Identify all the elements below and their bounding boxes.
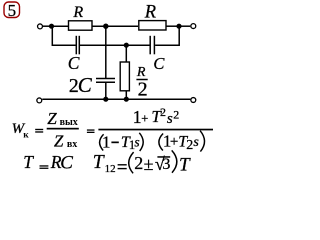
wire: node B down to capacitor 2C (crosses C branch without junction) <box>105 26 107 78</box>
wire: node D to C2 <box>126 44 149 46</box>
formula: radical overbar <box>157 156 170 158</box>
wire: R2 to node C <box>166 25 179 27</box>
svg-text:2: 2 <box>173 108 179 122</box>
svg-text:вых: вых <box>60 117 78 128</box>
bottom terminal (left) <box>37 98 42 103</box>
svg-text:1: 1 <box>102 132 111 151</box>
junction node A <box>49 24 54 29</box>
formula: second equals sign <box>87 129 95 133</box>
svg-text:±: ± <box>144 154 154 174</box>
svg-text:+: + <box>141 111 148 125</box>
formula: first equals sign <box>35 129 43 133</box>
resistor R/2 <box>120 62 129 91</box>
input terminal (top left) <box>38 24 43 29</box>
svg-text:2: 2 <box>134 153 143 173</box>
junction node D <box>124 43 129 48</box>
svg-text:вх: вх <box>67 139 77 150</box>
svg-text:s: s <box>167 111 173 127</box>
svg-text:Z: Z <box>54 131 64 150</box>
svg-text:1: 1 <box>133 107 142 127</box>
svg-text:к: к <box>23 131 29 141</box>
svg-text:R: R <box>72 4 83 21</box>
formula: big fraction bar <box>98 129 213 131</box>
capacitor C2 right plate <box>153 36 155 55</box>
formula: Z fraction bar <box>47 128 79 130</box>
formula line 2: T = RC group <box>23 152 73 174</box>
wire: input terminal to node A <box>43 25 50 27</box>
bottom terminal (right) <box>191 98 196 103</box>
formula: denominator open paren 2 <box>159 134 163 151</box>
svg-text:2: 2 <box>138 79 148 101</box>
capacitor C2 left plate <box>149 36 151 55</box>
label R/2 : fraction bar <box>136 79 147 81</box>
svg-text:12: 12 <box>105 163 116 175</box>
wire: R/2 to bottom rail <box>125 91 127 99</box>
capacitor C1 left plate <box>75 36 77 55</box>
svg-text:C: C <box>68 53 80 73</box>
junction node B <box>103 24 108 29</box>
formula: T12 equals sign <box>118 164 127 169</box>
svg-text:2: 2 <box>186 138 193 153</box>
svg-text:R: R <box>144 3 156 23</box>
formula: denominator open paren 1 <box>100 134 104 150</box>
capacitor 2C bottom plate <box>96 81 115 83</box>
wire: C2 right then up to node C <box>155 26 179 45</box>
resistor R2 <box>139 21 166 30</box>
formula: denominator minus sign <box>111 142 118 144</box>
svg-text:3: 3 <box>162 156 170 173</box>
resistor R1 <box>69 21 93 30</box>
junction on bottom rail below 2C <box>103 97 108 102</box>
wire: R1 to node B <box>92 25 138 27</box>
wire: node C to output terminal <box>179 25 190 27</box>
svg-text:C: C <box>78 73 93 97</box>
wire: bottom rail <box>42 98 190 100</box>
svg-text:T: T <box>93 152 105 173</box>
svg-text:2: 2 <box>160 105 166 119</box>
formula: open paren <box>129 152 134 173</box>
capacitor C1 right plate <box>78 36 80 55</box>
wire: 2C to bottom rail <box>105 82 107 99</box>
svg-text:C: C <box>60 152 73 173</box>
svg-text:T: T <box>23 152 34 172</box>
svg-text:+: + <box>170 134 178 150</box>
svg-text:5: 5 <box>8 1 17 20</box>
output terminal (top right) <box>191 24 196 29</box>
formula: close paren <box>172 150 177 172</box>
junction node C (output node) <box>176 24 181 29</box>
svg-text:T: T <box>179 155 191 176</box>
svg-text:Z: Z <box>47 109 57 128</box>
wire: node D down to resistor R/2 <box>125 45 127 62</box>
svg-text:C: C <box>153 54 165 73</box>
wire: node A down and right to capacitor branch <box>52 26 76 45</box>
wire: node A to R1 <box>52 25 69 27</box>
wire: C1 to node D <box>80 44 126 46</box>
formula: denominator close paren 1 <box>139 133 143 151</box>
svg-text:s: s <box>134 135 139 150</box>
formula: denominator close paren 2 <box>200 131 204 152</box>
figure number badge 5 <box>4 1 20 20</box>
junction on bottom rail below R/2 <box>124 97 129 102</box>
capacitor 2C top plate <box>96 78 115 80</box>
svg-text:s: s <box>193 135 199 150</box>
